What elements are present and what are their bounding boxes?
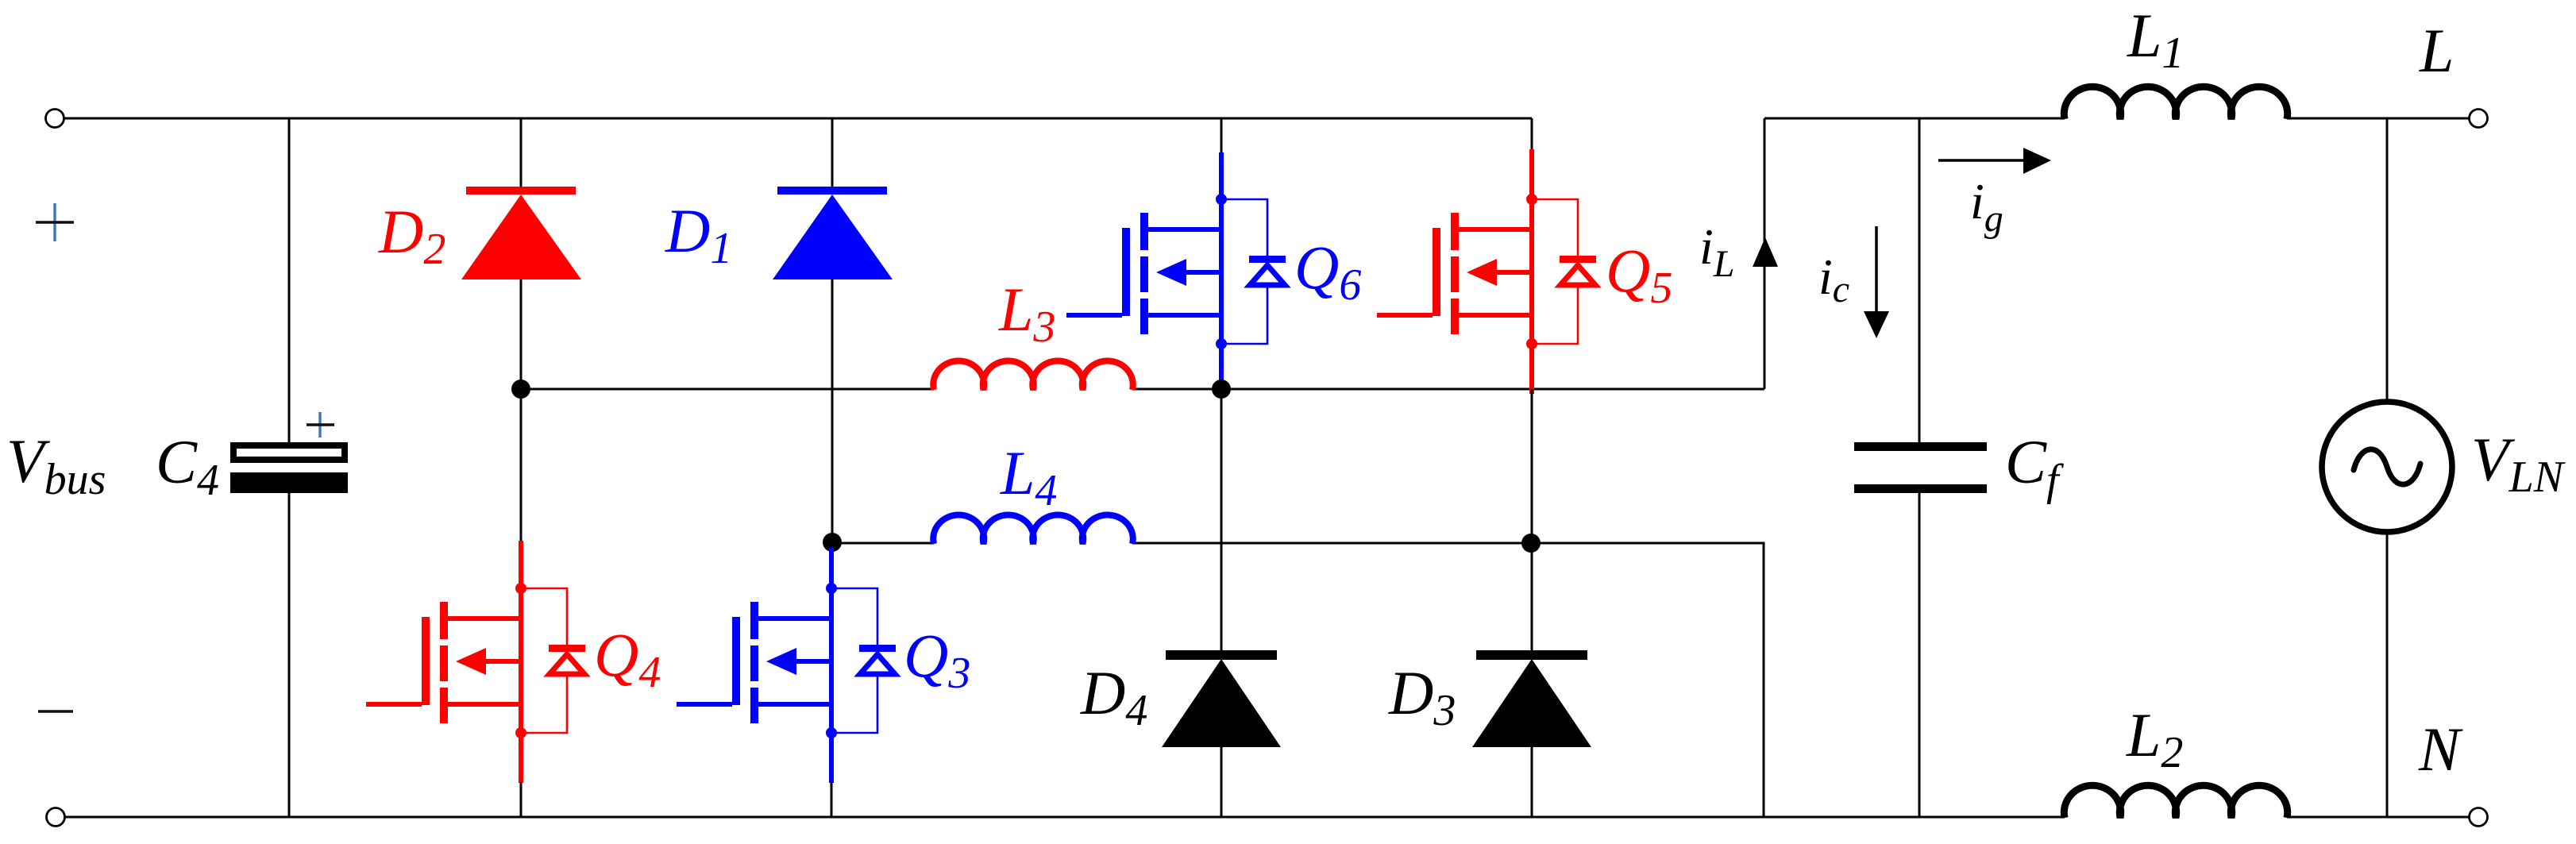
arrow iL [1753,237,1778,267]
wire D2 branch [520,118,523,541]
wire D1 branch [831,118,834,541]
svg-text:C4: C4 [156,427,219,505]
svg-text:ic: ic [1818,249,1849,310]
transistor Q4 [366,541,585,817]
wire iL riser [1764,118,1766,389]
diode D4 [1162,650,1281,747]
svg-text:L4: L4 [1000,438,1057,515]
wire bottom bus [65,816,2470,819]
svg-text:L3: L3 [998,275,1055,352]
svg-text:Q6: Q6 [1294,233,1361,310]
wire Cf branch [1919,118,1921,817]
wire L4 to bottom drop [1531,543,1764,817]
capacitor Cf [1854,442,1987,493]
wire top right bus [1764,118,2470,120]
label minus [38,710,73,713]
svg-text:Vbus: Vbus [6,426,106,504]
wire VLN branch [2386,118,2389,817]
transistor Q6 [1066,118,1286,386]
node left bottom terminal [47,808,65,827]
wire mid node1 [521,388,1764,391]
wire D3 branch [1531,389,1533,817]
svg-text:ig: ig [1970,173,2003,240]
node dot L4-D3 [1521,534,1541,553]
svg-text:D2: D2 [378,197,445,274]
diode D1 [773,187,893,279]
wire D4 branch [1221,389,1223,817]
capacitor C4 [230,412,348,493]
svg-text:VLN: VLN [2471,425,2566,502]
node right top terminal L [2470,110,2488,128]
arrow ig [1938,148,2051,174]
inductor L3 [933,361,1132,390]
svg-text:N: N [2418,715,2463,784]
inductor L2 [2064,785,2287,818]
diode D2 [461,187,581,279]
diode D3 [1472,650,1591,747]
node dot D2-L3 [511,380,530,399]
svg-text:Cf: Cf [2005,427,2065,505]
label plus [36,203,74,241]
transistor Q5 [1377,118,1596,394]
svg-text:D3: D3 [1388,658,1456,735]
svg-text:Q5: Q5 [1606,236,1672,313]
transistor Q3 [677,548,896,817]
node left top terminal [46,110,64,128]
svg-text:D4: D4 [1080,658,1147,735]
node dot D1-L4 [823,533,842,552]
wire C4 branch [288,118,291,817]
node dot L3-Q6 [1212,380,1231,399]
svg-text:L1: L1 [2127,1,2184,78]
wire top bus [64,118,1532,120]
inductor L4 [933,515,1132,544]
svg-text:D1: D1 [665,196,732,273]
wire mid node2 [832,542,1531,545]
svg-text:iL: iL [1699,218,1734,285]
node right bottom terminal N [2470,808,2488,827]
svg-text:Q4: Q4 [594,620,661,697]
source VLN [2322,402,2452,532]
arrow ic [1864,226,1889,338]
svg-text:Q3: Q3 [904,621,970,698]
inductor L1 [2064,87,2287,119]
svg-text:L2: L2 [2126,700,2183,777]
svg-text:L: L [2419,16,2454,85]
